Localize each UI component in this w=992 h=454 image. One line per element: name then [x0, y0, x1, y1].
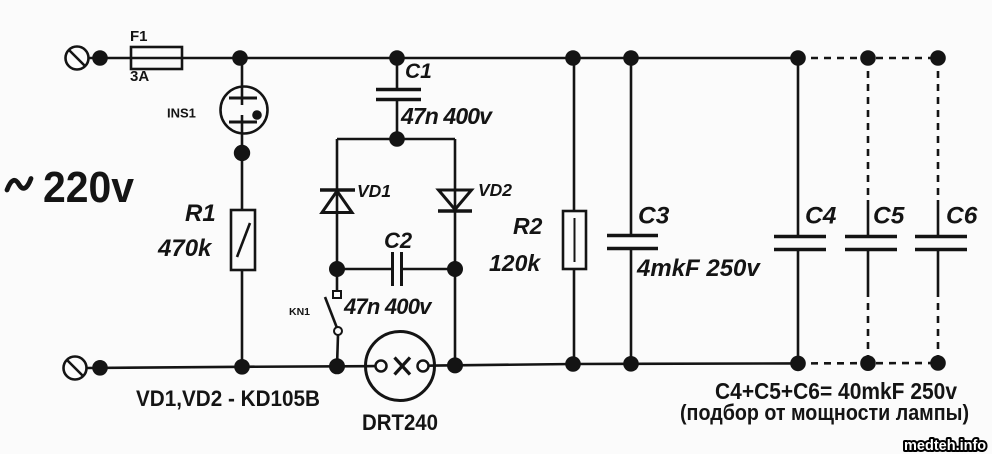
svg-text:C3: C3 [638, 203, 670, 230]
svg-text:VD1: VD1 [357, 181, 391, 201]
svg-text:120k: 120k [489, 250, 541, 276]
svg-text:F1: F1 [130, 28, 148, 45]
svg-text:VD2: VD2 [478, 180, 512, 200]
svg-text:470k: 470k [157, 235, 213, 262]
svg-text:220v: 220v [43, 163, 134, 212]
svg-text:47n 400v: 47n 400v [400, 103, 493, 129]
svg-text:C5: C5 [873, 203, 905, 230]
svg-text:C6: C6 [946, 203, 978, 230]
svg-text:C4: C4 [805, 203, 837, 230]
svg-text:3A: 3A [130, 68, 149, 85]
svg-text:KN1: KN1 [289, 306, 310, 318]
svg-text:INS1: INS1 [167, 106, 196, 121]
svg-text:C2: C2 [384, 228, 413, 253]
svg-text:R1: R1 [185, 200, 216, 227]
svg-text:DRT240: DRT240 [362, 410, 438, 435]
svg-text:C1: C1 [405, 60, 432, 83]
svg-text:R2: R2 [513, 213, 543, 239]
svg-text:medteh.info: medteh.info [904, 438, 986, 454]
svg-text:47n 400v: 47n 400v [343, 294, 433, 319]
svg-text:(подбор от мощности лампы): (подбор от мощности лампы) [680, 400, 969, 425]
svg-text:VD1,VD2 - KD105B: VD1,VD2 - KD105B [136, 386, 320, 411]
svg-text:4mkF 250v: 4mkF 250v [636, 255, 761, 282]
